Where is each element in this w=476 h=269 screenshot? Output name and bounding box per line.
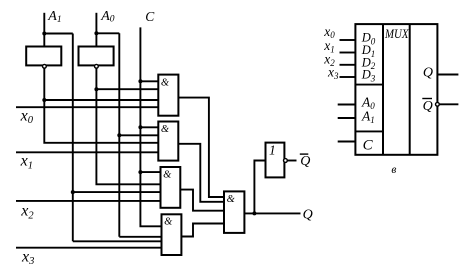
wire A0 to gate DD1.2 input — [119, 134, 158, 136]
wire A0 input — [95, 13, 97, 47]
inverter U2 (A0) — [79, 47, 114, 66]
node C to gate1 junction — [138, 79, 142, 83]
AND gate DD1.4 — [162, 214, 182, 255]
pin D3 — [340, 76, 356, 78]
AND gate DD1.2 — [158, 122, 178, 161]
svg-text:Q: Q — [423, 66, 433, 81]
wire inverted A0 — [96, 68, 160, 184]
node A1 branch junction — [42, 32, 46, 36]
pin C — [338, 141, 356, 143]
svg-text:A0: A0 — [100, 9, 115, 25]
wire C input — [140, 27, 161, 226]
node inverted A1 junction — [42, 98, 46, 102]
node Q junction — [252, 211, 256, 215]
wire C to gate DD1.2 — [140, 126, 158, 128]
pin inverted Q bubble — [436, 102, 440, 106]
wire A1 to gate DD1.4 input — [73, 240, 162, 242]
pin D0 — [340, 39, 356, 41]
MUX inner divider right — [409, 24, 411, 155]
wire x0 input — [16, 106, 158, 108]
node C to gate2 junction — [138, 125, 142, 129]
wire Q to inverter DD3 — [254, 161, 265, 214]
inverter U1 (A1) — [26, 47, 61, 66]
wire A1 branch horizontal — [44, 33, 73, 35]
wire inverted A1 — [44, 68, 158, 143]
wire A0 branch vertical to gates 2,4 — [118, 33, 120, 237]
svg-text:C: C — [145, 9, 155, 24]
wire A1 branch vertical to gates 3,4 — [72, 34, 74, 242]
svg-text:x3: x3 — [327, 65, 339, 81]
svg-text:1: 1 — [269, 143, 276, 158]
svg-text:&: & — [163, 169, 172, 180]
node A0 to gate2 junction — [117, 133, 121, 137]
overbar MUX inverted Q — [422, 98, 432, 100]
wire gate DD1.2 output to gate DD2.1 — [178, 144, 224, 202]
node C to gate3 junction — [138, 170, 142, 174]
node inverted A0 junction — [94, 87, 98, 91]
svg-text:x0: x0 — [20, 107, 34, 126]
MUX block DD4 outline — [355, 24, 437, 155]
svg-text:&: & — [161, 77, 170, 88]
wire inverted A1 to gate DD1.1 — [44, 99, 158, 101]
inverter U1 output bubble — [43, 64, 47, 68]
wire gate DD1.1 output to gate DD2.1 — [178, 98, 224, 197]
svg-text:MUX: MUX — [384, 27, 410, 41]
inverter DD3 — [266, 143, 285, 178]
svg-text:A1: A1 — [47, 9, 61, 25]
node A0 branch junction — [94, 31, 98, 35]
inverter U2 output bubble — [95, 64, 99, 68]
wire gate DD1.3 output to gate DD2.1 — [180, 190, 224, 211]
pin D1 — [340, 52, 356, 54]
inverter DD3 output bubble — [284, 159, 288, 163]
svg-text:Q: Q — [303, 207, 313, 222]
wire x3 input — [16, 247, 162, 249]
MUX section divider D/A — [355, 84, 383, 86]
svg-text:x2: x2 — [20, 203, 34, 222]
wire A1 input — [43, 13, 45, 47]
wire x2 input — [16, 200, 161, 202]
wire A0 to gate DD1.4 input — [119, 236, 161, 238]
wire inverted Q output — [287, 160, 296, 162]
AND gate DD1.1 — [158, 75, 178, 116]
svg-text:x3: x3 — [21, 248, 34, 267]
wire C to gate DD1.1 — [140, 80, 158, 82]
svg-text:x1: x1 — [20, 153, 33, 172]
pin D2 — [340, 64, 356, 66]
svg-text:C: C — [363, 138, 374, 154]
MUX inner divider left — [382, 24, 384, 155]
svg-text:&: & — [164, 217, 173, 228]
wire inverted A0 to gate DD1.1 — [96, 88, 158, 90]
wire x1 input — [16, 151, 158, 153]
MUX section divider A/C — [355, 130, 383, 132]
wire A0 branch horizontal — [96, 32, 119, 34]
pin A0 — [338, 104, 356, 106]
svg-text:&: & — [161, 124, 170, 135]
svg-text:в: в — [391, 164, 396, 176]
AND gate DD2.1 output gate — [224, 191, 244, 233]
pin inverted Q output — [439, 103, 458, 105]
wire C to gate DD1.3 — [140, 171, 160, 173]
overbar inverted Q — [300, 153, 309, 155]
svg-text:Q: Q — [423, 99, 433, 114]
pin A1 — [338, 117, 356, 119]
AND gate DD1.3 — [161, 167, 181, 208]
svg-text:&: & — [227, 194, 236, 205]
wire gate DD1.4 output to gate DD2.1 — [181, 224, 224, 237]
pin Q output — [437, 74, 458, 76]
node A1 to gate3 junction — [71, 190, 75, 194]
wire Q output — [244, 212, 300, 214]
wire A1 to gate DD1.3 input — [73, 191, 161, 193]
svg-text:Q: Q — [300, 154, 310, 169]
